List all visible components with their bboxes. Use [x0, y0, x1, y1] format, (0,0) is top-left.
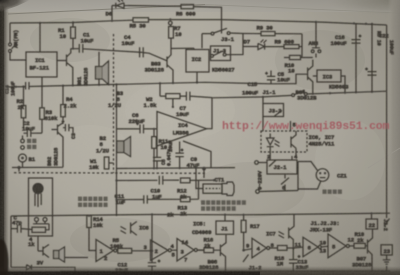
wire switch to IC1	[10, 53, 26, 61]
plus C16	[359, 35, 362, 38]
IC4 output wire up	[207, 98, 213, 129]
inverter gate 4	[252, 238, 267, 257]
capacitor C13	[289, 248, 298, 271]
wire gate6 out	[349, 245, 354, 247]
cjk label tape recorder	[323, 190, 342, 194]
node dots top right	[315, 21, 317, 23]
node J1 top	[224, 214, 226, 216]
capacitor C10	[159, 176, 179, 185]
resistor R19	[354, 243, 365, 248]
bottom rail dots	[74, 270, 76, 272]
resistor R4	[62, 86, 64, 105]
wire D7 branch left	[242, 34, 244, 47]
resistor R2	[23, 87, 25, 106]
inverter gate 6	[328, 234, 346, 258]
capacitor C4	[140, 47, 144, 57]
mic capsule dark circle	[32, 183, 43, 194]
wire gate5 out	[321, 245, 328, 248]
plus C12	[158, 260, 161, 263]
wire R6 right corner	[194, 7, 222, 20]
capacitor C11	[144, 195, 181, 203]
wire R17 to gate4	[244, 249, 252, 250]
relay J1 box	[216, 221, 234, 234]
tiny cjk blocks jack labels	[27, 139, 36, 149]
resistor R18	[278, 246, 288, 251]
resistor R11	[153, 129, 155, 137]
mic housing box	[29, 178, 53, 236]
resistor R17	[241, 220, 246, 232]
resistor R10	[290, 55, 301, 59]
potentiometer W1	[104, 157, 109, 169]
plus C6	[136, 122, 139, 125]
node dots wire J1-1	[312, 93, 314, 95]
switch J1-1	[295, 90, 387, 95]
node R17 top bottom	[242, 214, 244, 216]
main bus wire y86	[6, 82, 271, 87]
node T blob	[202, 167, 206, 171]
dashed section border vertical	[113, 34, 115, 173]
resistor R1	[72, 23, 74, 28]
top-left corner dark blob	[0, 0, 30, 12]
node R11 top	[153, 128, 155, 130]
capacitor C12	[148, 263, 156, 272]
plus C3	[62, 120, 65, 123]
resistor mic bias	[32, 227, 46, 232]
box J1-3	[211, 46, 231, 61]
wire IC1 bottom to bus	[41, 77, 43, 86]
cjk note line2	[201, 206, 236, 211]
J3-2 box	[263, 104, 284, 117]
potentiometer W2	[166, 94, 180, 99]
trimmer circles	[35, 218, 39, 222]
wire right branch	[301, 34, 303, 58]
capacitor C1	[79, 44, 83, 53]
capacitor C15	[267, 71, 275, 84]
jack circles W	[21, 139, 25, 143]
dashed section border horizontal	[14, 172, 205, 175]
wire to gate5	[293, 246, 303, 249]
switch J3-1	[202, 28, 243, 33]
scan diagonal line right	[205, 5, 400, 14]
node W2 tap	[172, 106, 174, 108]
inverter gate 2	[151, 240, 169, 261]
wire gate2 to gate3	[171, 249, 177, 251]
wire IC1 feed	[39, 23, 41, 52]
switch S-AM/FM	[10, 23, 17, 49]
optocoupler dashed box IC6 IC7	[261, 131, 307, 152]
top rail lower section	[11, 213, 390, 216]
node wire2	[262, 96, 264, 98]
transistor BG3	[167, 38, 173, 83]
pushbutton AN3	[312, 22, 320, 58]
opto IC6 symbol	[121, 222, 137, 236]
wire J3-2 to opto	[290, 121, 292, 131]
lever J2-1	[269, 160, 276, 167]
node R1/C1	[72, 48, 74, 50]
wire IC2 top	[194, 34, 202, 50]
bottom rail	[60, 270, 390, 272]
inverter gate 3	[177, 239, 194, 262]
wire bus into BG4 base	[271, 74, 300, 84]
bottom edge dark strip	[0, 266, 400, 275]
diode bottom left	[11, 265, 75, 272]
bus junction dots	[15, 86, 17, 88]
switch J1-3	[171, 47, 243, 56]
wire mid second	[212, 95, 292, 97]
plus C9	[181, 149, 184, 152]
switch J2-1 lower	[281, 174, 289, 191]
wire R5 to R7	[149, 19, 222, 21]
resistor R9a 30	[243, 33, 261, 35]
wire ground row left	[12, 166, 63, 168]
top right corner shadow	[318, 0, 400, 18]
right rail wire	[386, 25, 388, 218]
diode D7	[243, 40, 284, 50]
capacitor C9	[175, 142, 183, 169]
speaker B2	[117, 141, 124, 153]
socket CZ1 loop	[298, 162, 321, 191]
node C10 row left	[115, 179, 117, 181]
switch J1-2 lever	[243, 255, 249, 263]
cjk rod label line1	[78, 197, 108, 201]
resistor R3	[41, 86, 43, 108]
mic B1	[19, 154, 27, 162]
terminal 220V top	[255, 161, 259, 165]
capacitor C3	[63, 124, 73, 133]
op-amp IC4	[157, 112, 207, 147]
cjk note line1	[201, 200, 246, 205]
resistor R12	[181, 178, 191, 183]
wire B1 down	[22, 136, 24, 168]
bottom-left corner	[0, 239, 9, 275]
transistor mic amp	[38, 236, 49, 258]
IC2 box	[186, 50, 209, 73]
wire C10 R12 row	[117, 179, 158, 181]
plus right chain	[365, 68, 368, 71]
plus C13	[298, 255, 301, 258]
wire top bus left	[10, 20, 133, 23]
node gate4 out	[292, 247, 295, 250]
wire speaker out	[65, 257, 89, 259]
subtle center-right shading	[0, 0, 1, 1]
ground rail mid	[117, 167, 236, 170]
wire link R12 R13	[198, 180, 200, 199]
capacitor C2	[24, 129, 43, 137]
scan diagonal line left	[8, 5, 205, 15]
capacitor chain right	[368, 24, 377, 92]
transistor BG7	[368, 229, 373, 271]
left page edge dark strip	[0, 0, 9, 275]
node R14 top	[88, 215, 90, 217]
wire slope out IC4	[183, 141, 211, 168]
paper mottling	[30, 18, 365, 262]
faint scratch bottom right	[368, 148, 400, 168]
wire gate4 out	[270, 247, 278, 249]
wire J1 top	[224, 215, 226, 221]
node IC6 column	[151, 213, 153, 215]
ground symbol	[383, 255, 391, 271]
wire top bus right	[222, 20, 387, 25]
relay coil box J3	[381, 245, 392, 255]
capacitor C7	[186, 92, 212, 101]
plus C15	[265, 72, 268, 75]
resistor R13	[181, 197, 191, 202]
capacitor C16 chain	[352, 23, 361, 92]
resistor R5b 100k	[116, 250, 119, 252]
resistor R6	[181, 5, 194, 9]
IC3 box	[317, 70, 341, 82]
connector CT1	[196, 168, 203, 188]
transistor BG1	[57, 49, 73, 85]
wire C4 to BG3 base	[143, 53, 167, 61]
node J3-2 top	[262, 97, 264, 131]
capacitor C6	[117, 124, 158, 133]
ground rail dots	[153, 167, 155, 169]
relay coil box J2	[366, 219, 378, 229]
opto phototransistor	[291, 131, 296, 152]
node junction dots top bus	[39, 22, 41, 24]
opto pin stubs	[270, 152, 296, 160]
opto IC7 symbol	[279, 214, 295, 248]
terminal 220V bottom	[256, 190, 260, 194]
switch lever J3-2	[275, 111, 283, 117]
wire C1 row	[71, 49, 143, 53]
resistor R5	[133, 18, 149, 22]
IC1 box	[26, 52, 57, 77]
wire IC2 bottom	[196, 72, 198, 83]
transistor BG6	[220, 234, 226, 271]
resistor R14	[87, 216, 92, 228]
switch J2-2 lever	[384, 219, 390, 227]
node coil top	[370, 212, 372, 214]
transistor BG4	[300, 60, 313, 94]
opto LED	[267, 134, 280, 153]
capacitor C14	[26, 82, 29, 90]
resistor R9b 600	[284, 45, 299, 49]
resistor R7	[169, 21, 173, 25]
wire corner down to J3-1	[221, 20, 223, 34]
wire left column	[116, 84, 118, 216]
wire coil top	[371, 213, 373, 219]
top scan band	[0, 0, 400, 12]
LED D6	[112, 0, 181, 20]
wire IC6 column	[151, 215, 153, 263]
node R7 top	[169, 18, 171, 20]
cjk rod label line2	[78, 203, 108, 207]
inverter gate 5	[303, 237, 318, 256]
wire C11 row	[117, 199, 144, 201]
socket CZ1	[316, 169, 329, 182]
capacitor C8	[153, 146, 161, 168]
capacitor C 47p	[11, 225, 32, 233]
transistor BG2	[52, 123, 64, 168]
mic capsule leads	[35, 194, 41, 208]
speaker B3	[98, 52, 100, 67]
inverter gate 1	[96, 240, 114, 262]
wire IC3 stubs	[313, 76, 345, 93]
right margin shading	[388, 0, 400, 275]
node T left	[17, 166, 20, 169]
left rail lower	[10, 216, 12, 267]
resistor R16	[204, 248, 214, 253]
speaker small	[54, 251, 60, 259]
wire gate3 out	[198, 249, 205, 251]
relay J2-1 box	[267, 160, 297, 174]
